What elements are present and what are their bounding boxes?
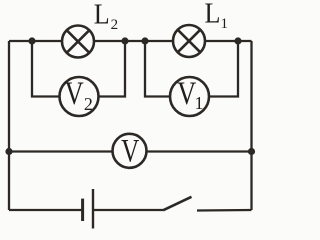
wire: battery to switch pivot [94, 209, 164, 211]
wire: top middle segment [94, 40, 173, 42]
svg-text:V: V [121, 133, 139, 169]
wire: bottom left to battery [9, 209, 82, 211]
battery cell [83, 189, 93, 229]
svg-text:V: V [65, 75, 84, 111]
lamp L1 [173, 25, 205, 57]
node dot C (top wire, left of L1) [141, 37, 148, 44]
wire: top right segment [205, 40, 252, 42]
node dot E (middle wire left) [5, 148, 12, 155]
voltmeter V2 [60, 77, 99, 116]
node dot A (top wire left junction) [28, 37, 35, 44]
svg-text:L: L [94, 0, 110, 30]
lamp L2 [62, 26, 94, 58]
wire: outer left edge [8, 41, 10, 210]
wire: switch contact to bottom right corner [197, 209, 252, 212]
wire: V2 loop right drop [99, 41, 126, 97]
svg-text:1: 1 [195, 93, 204, 113]
wire: V2 loop left drop [32, 41, 60, 97]
wire: V1 loop left drop [145, 41, 170, 97]
voltmeter V1 [170, 77, 209, 116]
wire: middle right segment from voltmeter V [147, 150, 252, 152]
wire: V1 loop right drop [209, 41, 238, 97]
svg-text:2: 2 [84, 94, 93, 114]
wire: top left segment [9, 40, 62, 42]
node dot F (middle wire right) [248, 148, 255, 155]
wire: outer right edge [250, 41, 252, 210]
svg-text:1: 1 [221, 16, 229, 32]
switch S (open lever) [163, 197, 192, 211]
node dot B (top wire, right of L2) [121, 37, 128, 44]
svg-text:2: 2 [111, 17, 119, 33]
svg-text:L: L [205, 0, 221, 29]
voltmeter V (main) [113, 134, 147, 168]
wire: middle left segment to voltmeter V [9, 150, 113, 152]
node dot D (top wire right junction) [234, 37, 241, 44]
